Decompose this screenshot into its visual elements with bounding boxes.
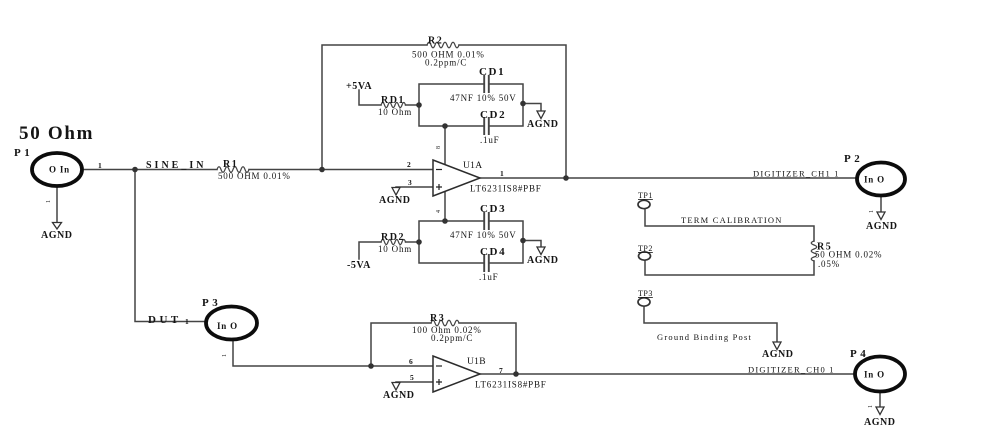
svg-text:8: 8 xyxy=(436,146,442,149)
svg-text:.1uF: .1uF xyxy=(480,135,499,145)
svg-text:47NF 10% 50V: 47NF 10% 50V xyxy=(450,93,517,103)
svg-text:AGND: AGND xyxy=(41,230,72,241)
svg-text:AGND: AGND xyxy=(527,119,558,130)
svg-text:AGND: AGND xyxy=(383,390,414,401)
svg-text:+5VA: +5VA xyxy=(346,81,372,92)
svg-text:-5VA: -5VA xyxy=(347,260,371,271)
svg-text:AGND: AGND xyxy=(866,221,897,232)
svg-text:DUT: DUT xyxy=(148,314,182,326)
svg-text:.05%: .05% xyxy=(818,259,840,269)
svg-text:In O: In O xyxy=(217,321,238,331)
svg-text:Ground Binding Post: Ground Binding Post xyxy=(657,332,752,342)
svg-text:R1: R1 xyxy=(223,159,238,170)
svg-text:1: 1 xyxy=(869,210,875,213)
svg-text:In O: In O xyxy=(864,370,885,380)
svg-text:TP2: TP2 xyxy=(638,244,653,253)
svg-text:.1uF: .1uF xyxy=(479,272,498,282)
svg-text:2: 2 xyxy=(407,160,411,169)
svg-text:AGND: AGND xyxy=(527,255,558,266)
svg-text:0.2ppm/C: 0.2ppm/C xyxy=(425,58,467,68)
svg-text:P3: P3 xyxy=(202,297,221,309)
svg-text:AGND: AGND xyxy=(762,349,793,360)
svg-text:7: 7 xyxy=(499,366,503,375)
svg-text:CD4: CD4 xyxy=(480,246,506,258)
svg-text:P2: P2 xyxy=(844,153,863,165)
svg-text:O In: O In xyxy=(49,165,70,175)
svg-text:1: 1 xyxy=(185,317,189,326)
svg-text:1: 1 xyxy=(98,161,102,170)
svg-text:LT6231IS8#PBF: LT6231IS8#PBF xyxy=(470,184,542,194)
svg-text:1: 1 xyxy=(868,405,874,408)
svg-text:SINE_IN: SINE_IN xyxy=(146,160,206,171)
svg-text:U1B: U1B xyxy=(467,357,486,367)
svg-text:CD2: CD2 xyxy=(480,109,506,121)
svg-text:R3: R3 xyxy=(430,313,445,324)
svg-text:3: 3 xyxy=(408,178,412,187)
svg-text:LT6231IS8#PBF: LT6231IS8#PBF xyxy=(475,380,547,390)
svg-text:TERM CALIBRATION: TERM CALIBRATION xyxy=(681,215,783,225)
svg-text:47NF 10% 50V: 47NF 10% 50V xyxy=(450,230,517,240)
svg-text:RD2: RD2 xyxy=(381,232,405,243)
svg-text:DIGITIZER_CH0 1: DIGITIZER_CH0 1 xyxy=(748,365,835,375)
svg-text:500 OHM 0.01%: 500 OHM 0.01% xyxy=(218,171,291,181)
svg-text:TP1: TP1 xyxy=(638,191,653,200)
svg-text:50 OHM 0.02%: 50 OHM 0.02% xyxy=(815,250,882,260)
svg-text:In O: In O xyxy=(864,175,885,185)
svg-text:5: 5 xyxy=(410,373,414,382)
svg-text:4: 4 xyxy=(436,210,442,213)
svg-text:1: 1 xyxy=(46,200,52,203)
svg-text:TP3: TP3 xyxy=(638,289,653,298)
svg-text:CD3: CD3 xyxy=(480,203,506,215)
svg-text:1: 1 xyxy=(222,354,228,357)
svg-text:50 Ohm: 50 Ohm xyxy=(19,123,94,144)
svg-text:0.2ppm/C: 0.2ppm/C xyxy=(431,333,473,343)
svg-text:P1: P1 xyxy=(14,147,33,159)
svg-text:CD1: CD1 xyxy=(479,66,505,78)
svg-text:10 Ohm: 10 Ohm xyxy=(378,107,412,117)
svg-text:6: 6 xyxy=(409,357,413,366)
svg-text:DIGITIZER_CH1 1: DIGITIZER_CH1 1 xyxy=(753,169,840,179)
svg-text:RD1: RD1 xyxy=(381,95,405,106)
svg-text:10 Ohm: 10 Ohm xyxy=(378,244,412,254)
svg-text:1: 1 xyxy=(500,169,504,178)
svg-text:AGND: AGND xyxy=(864,417,895,428)
svg-text:R2: R2 xyxy=(428,36,443,47)
svg-text:U1A: U1A xyxy=(463,161,482,171)
svg-text:AGND: AGND xyxy=(379,195,410,206)
svg-text:P4: P4 xyxy=(850,348,869,360)
